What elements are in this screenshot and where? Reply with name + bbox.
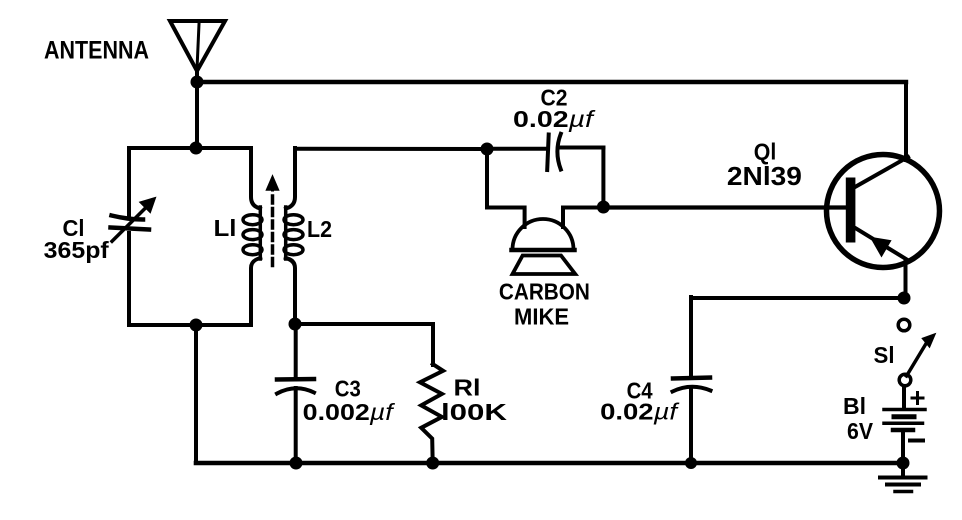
capacitor C1 (variable) [111, 199, 155, 242]
capacitor C3 [277, 324, 314, 463]
battery B1 [884, 386, 925, 463]
wire C2 left lead [487, 147, 545, 151]
svg-text:CARBON: CARBON [499, 279, 590, 305]
svg-text:Rl: Rl [454, 375, 481, 401]
svg-text:Ll: Ll [214, 215, 237, 241]
inductor L1 [243, 148, 262, 325]
wire emitter drop [904, 260, 908, 298]
node C2 left junction [481, 143, 494, 156]
svg-text:2Nl39: 2Nl39 [727, 161, 802, 191]
wire tank top [129, 146, 251, 150]
svg-text:Sl: Sl [874, 342, 895, 368]
ground [880, 463, 926, 492]
wire tank bottom to rail [194, 325, 198, 463]
capacitor C2 [547, 134, 561, 170]
transistor Q1 [827, 155, 940, 268]
inductor L2 [284, 148, 303, 324]
svg-text:ANTENNA: ANTENNA [44, 37, 149, 65]
wire emitter to C4 [691, 296, 904, 300]
wire top rail [197, 80, 906, 84]
node mike right junction [597, 201, 610, 214]
svg-text:365pf: 365pf [44, 237, 109, 263]
wire tank left upper [127, 148, 131, 218]
wire L2 bottom junction [289, 318, 302, 331]
svg-text:0.002µf: 0.002µf [303, 399, 396, 425]
wire mike right branch [563, 148, 603, 228]
wire L2 top to C2 [295, 147, 487, 151]
svg-text:6V: 6V [847, 418, 874, 444]
switch S1 [898, 319, 935, 386]
svg-text:C3: C3 [335, 376, 361, 402]
wire L2 bottom to R1 [295, 324, 433, 365]
antenna [170, 21, 225, 71]
wire tank bottom [129, 323, 251, 327]
wire collector drop [904, 82, 908, 160]
wire base lead [603, 205, 846, 209]
resistor R1 [420, 364, 443, 463]
wire C4 bottom lead [689, 388, 693, 463]
wire tank left lower [127, 233, 131, 325]
node antenna junction [191, 76, 204, 89]
capacitor C4 [673, 378, 711, 392]
svg-text:MIKE: MIKE [514, 304, 569, 330]
wire bottom rail [196, 461, 903, 466]
node tank bottom [190, 319, 203, 332]
svg-text:Bl: Bl [843, 393, 866, 419]
svg-text:0.02µf: 0.02µf [600, 399, 680, 425]
svg-text:l00K: l00K [441, 399, 508, 425]
node tank top [190, 142, 203, 155]
svg-text:L2: L2 [307, 216, 332, 242]
svg-text:0.02µf: 0.02µf [513, 106, 596, 132]
wire antenna lead down [195, 71, 199, 148]
carbon mike [512, 219, 576, 274]
node emitter junction [898, 292, 911, 305]
node R1 bottom [426, 457, 439, 470]
node C4 bottom [685, 457, 697, 469]
wire C2 right lead [561, 146, 604, 150]
node C3 bottom [290, 457, 303, 470]
node battery bottom [897, 457, 910, 470]
wire mike left branch [487, 149, 525, 227]
wire C4 top lead [689, 297, 693, 377]
transformer core arrow [267, 176, 279, 268]
